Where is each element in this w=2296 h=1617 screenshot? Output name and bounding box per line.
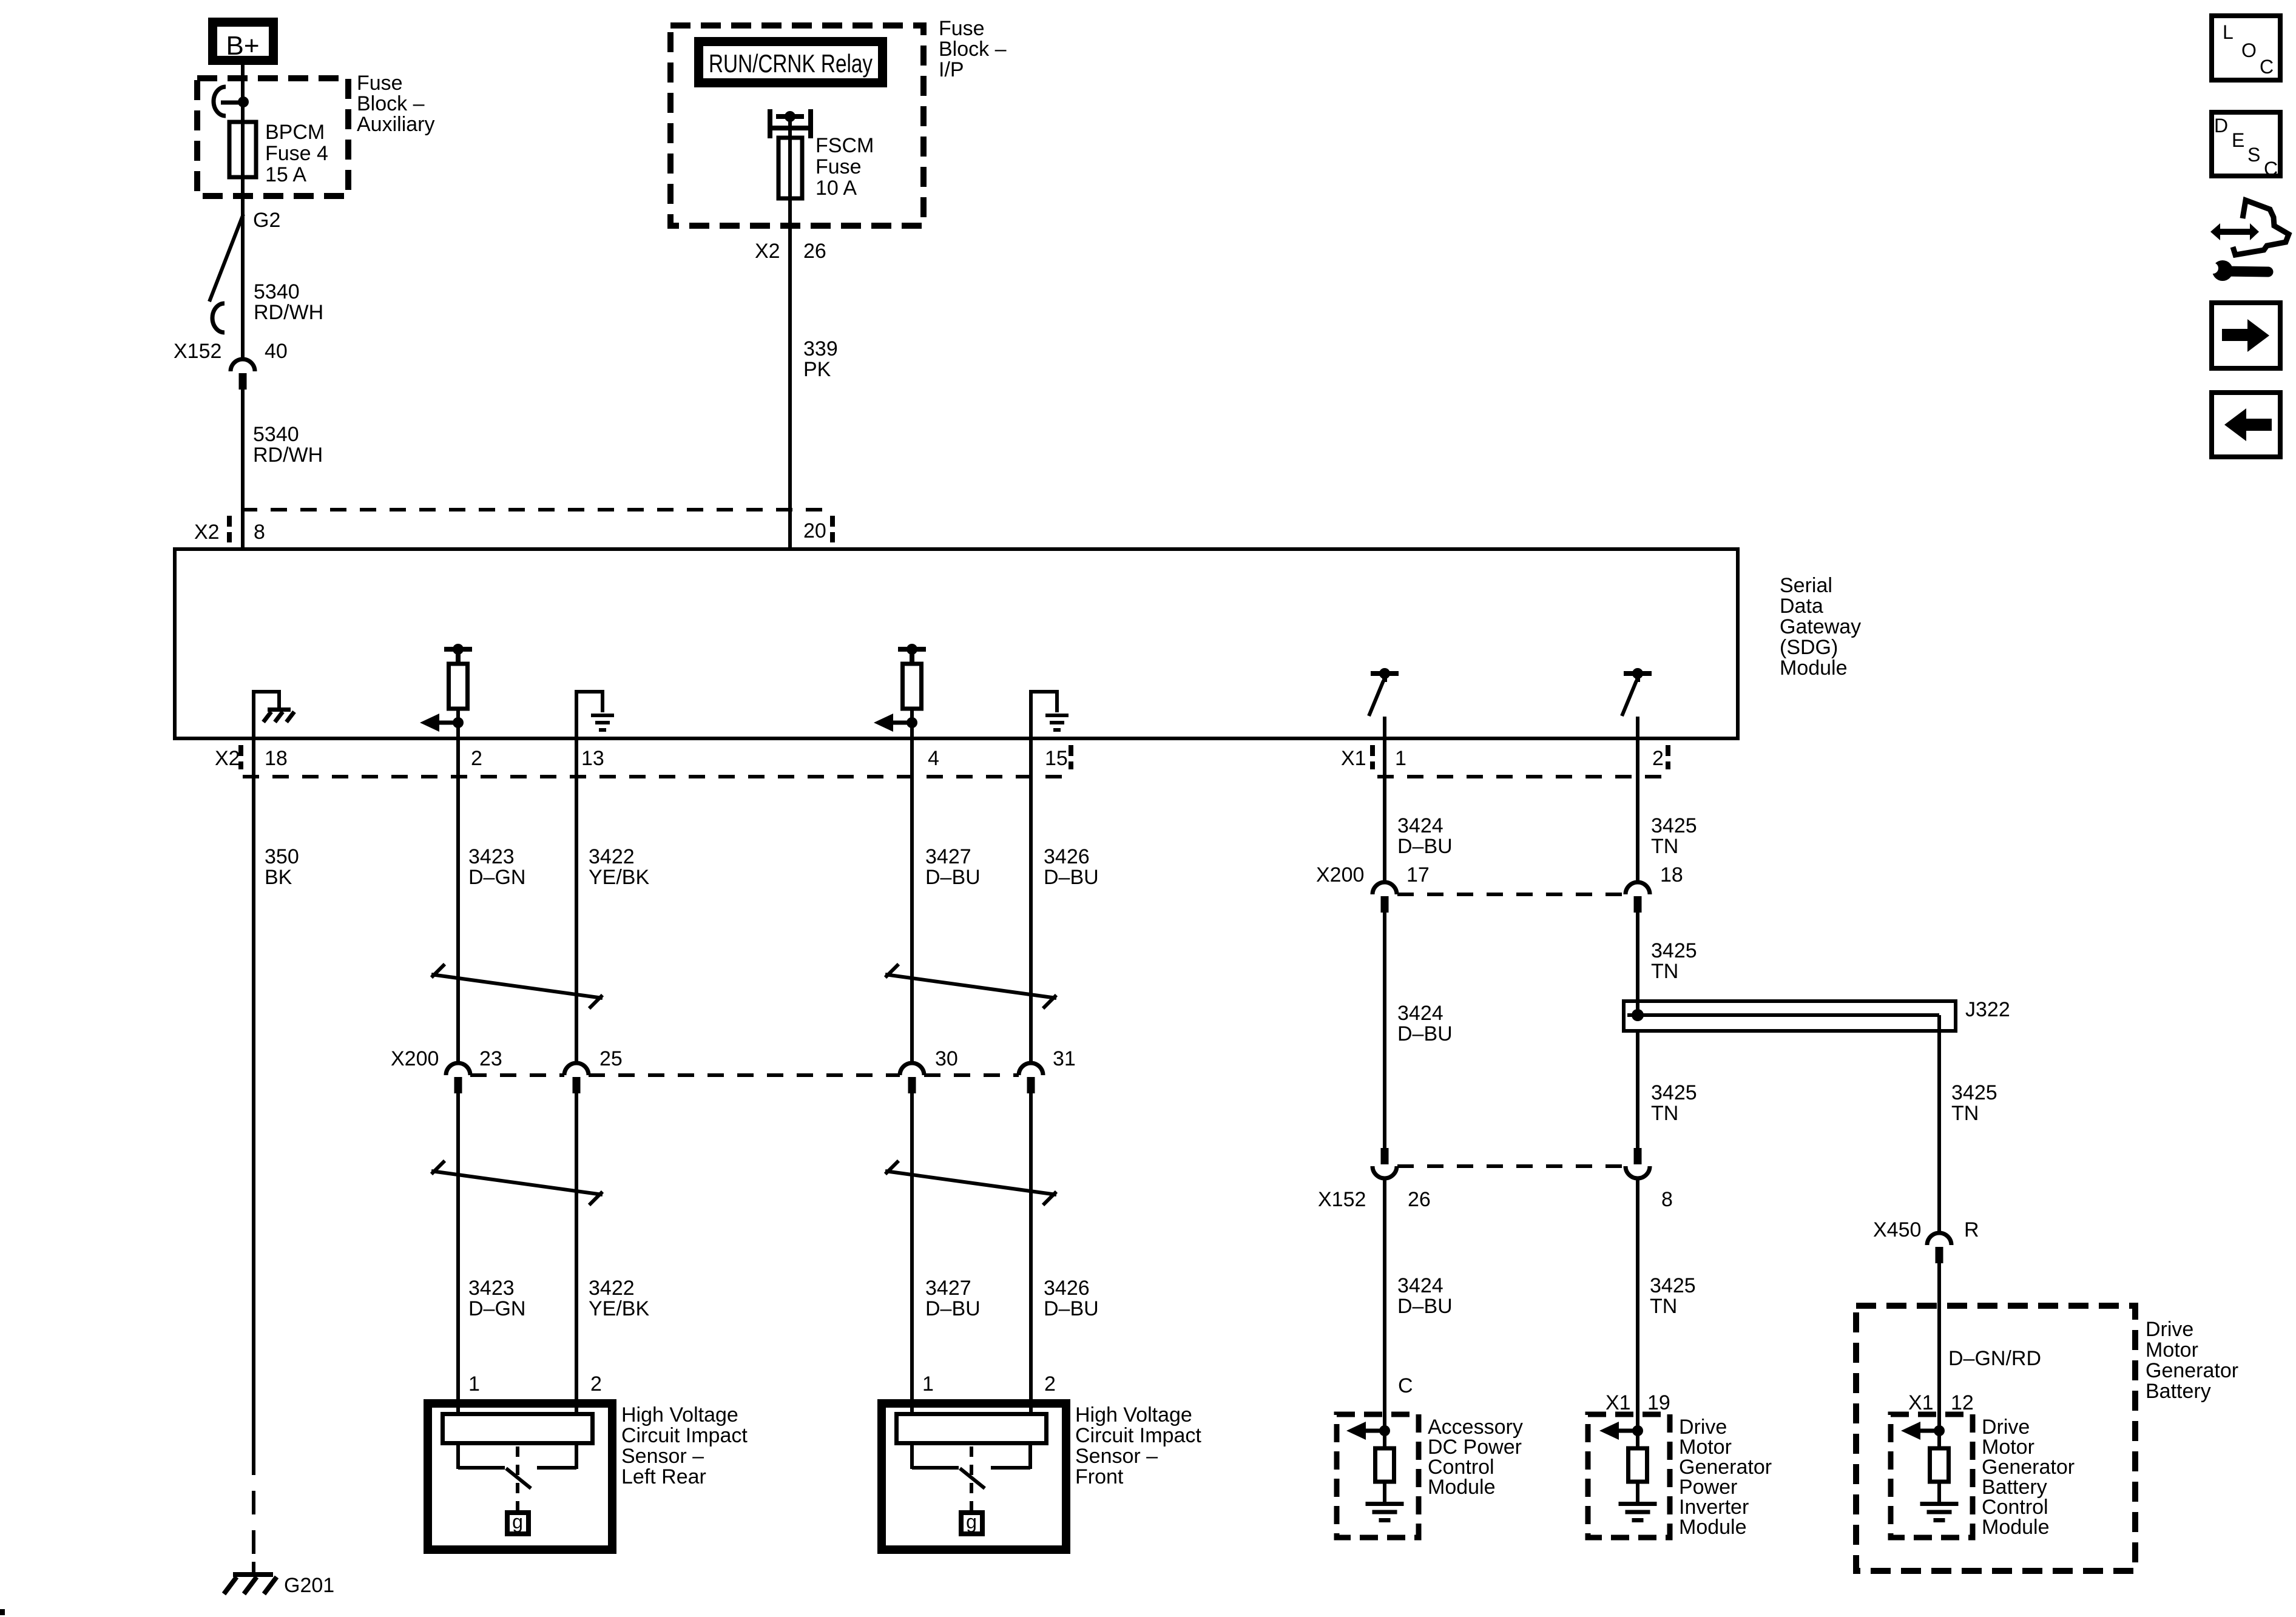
svg-text:5340: 5340 (253, 423, 299, 446)
svg-text:X2: X2 (755, 240, 780, 263)
svg-text:3424: 3424 (1397, 1274, 1443, 1297)
svg-text:Generator: Generator (2146, 1359, 2238, 1382)
wire stub to G201 (252, 1562, 255, 1573)
wire 3426 D-BU (X200-31 to sensor) (1029, 1093, 1033, 1414)
svg-text:Fuse 4: Fuse 4 (265, 142, 328, 165)
svg-text:L: L (2223, 21, 2234, 43)
svg-text:3425: 3425 (1951, 1081, 1997, 1104)
tap wire to other G2 loads (209, 214, 243, 302)
svg-text:3426: 3426 (1044, 1277, 1090, 1300)
wire 3425 TN (X200-18 to splice J322) (1636, 913, 1639, 1015)
ground G201 chassis symbol (233, 1572, 273, 1577)
svg-text:G201: G201 (284, 1574, 334, 1597)
svg-text:3425: 3425 (1651, 939, 1697, 962)
twisted pair symbol (3427/3426 lower) (885, 1161, 899, 1174)
svg-text:D–BU: D–BU (1044, 1297, 1099, 1320)
connector X200 pin 23 (446, 1063, 470, 1075)
icon: forward arrow box (2212, 303, 2280, 368)
svg-text:PK: PK (803, 358, 831, 381)
svg-text:g: g (512, 1511, 523, 1533)
svg-text:3425: 3425 (1651, 814, 1697, 837)
svg-text:Module: Module (1982, 1516, 2050, 1539)
wire: X152-40 down to SDG pin X2-8 (241, 390, 245, 549)
connector row X200 (right) (1397, 893, 1626, 896)
svg-text:3423: 3423 (468, 1277, 515, 1300)
svg-text:30: 30 (935, 1047, 958, 1070)
svg-text:2: 2 (590, 1372, 602, 1396)
svg-text:15 A: 15 A (265, 163, 306, 186)
svg-text:8: 8 (254, 521, 265, 544)
svg-text:X1: X1 (1341, 747, 1366, 770)
svg-text:Module: Module (1428, 1476, 1496, 1499)
svg-text:1: 1 (922, 1372, 934, 1396)
svg-text:Left Rear: Left Rear (621, 1465, 706, 1488)
svg-text:D: D (2214, 115, 2228, 137)
wire 350 BK (ground from pin X2-18) (252, 738, 255, 1451)
wire 3422 YE/BK (pin X2-13 to X200-25) (575, 738, 578, 1063)
svg-text:Module: Module (1780, 657, 1848, 680)
connector row X200 (sensors) (470, 1073, 564, 1077)
wire 3424 D-BU (X152-26 to module) (1383, 1178, 1386, 1431)
svg-text:G2: G2 (253, 209, 280, 232)
icon: connector repair (double arrow, shell, wrench) (2210, 223, 2220, 240)
connector X200 pin 31 (1019, 1063, 1043, 1075)
svg-text:(SDG): (SDG) (1780, 636, 1838, 659)
svg-text:X152: X152 (174, 340, 221, 363)
svg-text:J322: J322 (1965, 998, 2010, 1021)
svg-text:High Voltage: High Voltage (621, 1403, 738, 1426)
svg-text:D–GN: D–GN (468, 1297, 525, 1320)
svg-text:3425: 3425 (1651, 1081, 1697, 1104)
svg-text:Fuse: Fuse (939, 17, 985, 40)
sensor: High Voltage Circuit Impact Sensor - Left Rear (428, 1403, 612, 1550)
connector X152 pin 40 pass-through (231, 359, 255, 371)
svg-text:Auxiliary: Auxiliary (357, 113, 434, 136)
svg-text:339: 339 (803, 337, 838, 360)
wire 3427 D-BU (pin X2-4 to X200-30) (910, 723, 914, 1063)
svg-text:Data: Data (1780, 595, 1823, 618)
wire: switch to pin X1-2 (1636, 717, 1639, 738)
svg-text:2: 2 (1652, 747, 1664, 770)
internal switch at pin X1-2 (1624, 671, 1652, 676)
wire 3425 TN (J322 to X1-8) (1636, 1031, 1639, 1148)
svg-text:18: 18 (1660, 863, 1683, 886)
page artifact dot (0, 1609, 5, 1615)
svg-text:Circuit Impact: Circuit Impact (1075, 1424, 1201, 1447)
twisted pair symbol (3423/3422 lower) (431, 1161, 445, 1174)
svg-text:18: 18 (265, 747, 288, 770)
wire 3425 TN (J322 to X450-R) (1937, 1015, 1941, 1233)
wire 3426 D-BU (pin X2-15 to X200-31) (1029, 738, 1033, 1063)
svg-text:X1: X1 (1908, 1391, 1934, 1414)
svg-text:Battery: Battery (2146, 1380, 2211, 1403)
connector X152 pin 26 (1381, 1148, 1389, 1164)
internal earth ground at pin X2-13 (575, 692, 578, 738)
icon: LOC box (2212, 16, 2280, 80)
sensor internal switch to ground (left rear) (516, 1447, 519, 1510)
twisted pair symbol (3423/3422 upper) (431, 964, 445, 977)
svg-text:Gateway: Gateway (1780, 615, 1861, 638)
svg-text:26: 26 (1408, 1188, 1431, 1211)
wire 3423 D-GN (pin X2-2 to X200-23) (456, 723, 460, 1063)
twisted pair symbol (3427/3426 upper) (885, 964, 899, 977)
battery feed terminal B+ box (213, 22, 274, 61)
svg-text:3424: 3424 (1397, 1002, 1443, 1025)
svg-text:D–BU: D–BU (925, 1297, 981, 1320)
svg-text:8: 8 (1661, 1188, 1673, 1211)
internal earth ground at pin X2-15 (1029, 692, 1033, 738)
wire 3422 YE/BK (X200-25 to sensor) (575, 1093, 578, 1414)
svg-text:TN: TN (1650, 1295, 1677, 1318)
connector row X2 (top of SDG) (241, 508, 832, 511)
svg-text:25: 25 (599, 1047, 623, 1070)
svg-text:26: 26 (803, 240, 826, 263)
svg-text:RD/WH: RD/WH (253, 444, 323, 467)
svg-text:17: 17 (1406, 863, 1430, 886)
svg-text:Block –: Block – (357, 92, 425, 115)
svg-text:X2: X2 (194, 521, 220, 544)
svg-text:Fuse: Fuse (357, 72, 403, 95)
svg-text:TN: TN (1651, 835, 1678, 858)
fuse block auxiliary dashed box (197, 78, 348, 196)
svg-text:1: 1 (1395, 747, 1406, 770)
module: Serial Data Gateway (SDG) (175, 549, 1738, 738)
svg-text:3427: 3427 (925, 845, 971, 868)
svg-text:X2: X2 (215, 747, 240, 770)
fuse block I/P dashed box (670, 25, 923, 226)
svg-text:D–BU: D–BU (1397, 835, 1453, 858)
svg-text:YE/BK: YE/BK (589, 1297, 649, 1320)
wire: through BPCM fuse to X152-40 (241, 102, 245, 359)
internal chassis ground at pin X2-18 (252, 692, 255, 738)
connector row X152 (right) (1397, 1164, 1626, 1168)
svg-text:X152: X152 (1318, 1188, 1366, 1211)
svg-text:TN: TN (1951, 1102, 1979, 1125)
svg-text:D–BU: D–BU (925, 866, 981, 889)
component: Drive Motor Generator Battery dashed box (1856, 1306, 2135, 1571)
svg-text:3426: 3426 (1044, 845, 1090, 868)
internal switch at pin X1-1 (1371, 671, 1399, 676)
svg-text:E: E (2232, 129, 2244, 151)
svg-text:3422: 3422 (589, 1277, 635, 1300)
svg-text:19: 19 (1647, 1391, 1670, 1414)
svg-text:D–GN: D–GN (468, 866, 525, 889)
svg-text:3424: 3424 (1397, 814, 1443, 837)
relay RUN/CRNK Relay box (699, 42, 883, 83)
svg-text:Block –: Block – (939, 38, 1007, 61)
connector X200 pin 17 (1373, 882, 1397, 894)
svg-text:YE/BK: YE/BK (589, 866, 649, 889)
junction at FSCM fuse feed (785, 111, 795, 122)
svg-text:350: 350 (265, 845, 299, 868)
svg-text:R: R (1964, 1218, 1979, 1241)
svg-text:B+: B+ (226, 31, 259, 61)
fuse BPCM Fuse 4 15A (229, 122, 256, 177)
svg-text:Module: Module (1679, 1516, 1747, 1539)
icon: back arrow box (2212, 393, 2280, 457)
internal pull-up resistor + signal arrow at pin X2-2 (444, 647, 472, 652)
svg-text:X200: X200 (391, 1047, 439, 1070)
svg-text:2: 2 (1044, 1372, 1056, 1396)
junction: 3425 TN at J322 (1632, 1009, 1644, 1021)
svg-text:2: 2 (471, 747, 482, 770)
svg-text:4: 4 (928, 747, 939, 770)
svg-text:C: C (1398, 1374, 1413, 1397)
fuse FSCM Fuse 10A (778, 138, 802, 198)
svg-text:X450: X450 (1873, 1218, 1921, 1241)
internal pull-up resistor + signal arrow at pin X2-4 (898, 647, 926, 652)
svg-text:12: 12 (1951, 1391, 1974, 1414)
svg-text:BK: BK (265, 866, 292, 889)
wire D-GN/RD (X450-R to battery control module) (1937, 1263, 1941, 1431)
svg-text:D–GN/RD: D–GN/RD (1948, 1347, 2041, 1370)
svg-text:TN: TN (1651, 960, 1678, 983)
connector X200 pin 25 (564, 1063, 589, 1075)
wire 3427 D-BU (X200-30 to sensor) (910, 1093, 914, 1414)
sensor internal switch to ground (front) (970, 1447, 973, 1510)
svg-text:3422: 3422 (589, 845, 635, 868)
connector X1 pin 8 pass-through (1634, 1148, 1642, 1164)
svg-text:Sensor –: Sensor – (621, 1445, 704, 1468)
svg-text:S: S (2247, 144, 2260, 166)
wire: B+ into Fuse Block - Auxiliary (241, 65, 245, 102)
svg-text:Circuit Impact: Circuit Impact (621, 1424, 748, 1447)
wire 3423 D-GN (X200-23 to sensor) (456, 1093, 460, 1414)
icon: DESC box (2212, 112, 2280, 176)
svg-text:D–BU: D–BU (1397, 1022, 1453, 1045)
svg-text:High Voltage: High Voltage (1075, 1403, 1192, 1426)
splice pack J322 (1624, 1001, 1956, 1031)
wire 3425 TN (X1-8 to inverter module) (1636, 1178, 1639, 1431)
module: Accessory DC Power Control Module (1337, 1414, 1419, 1538)
svg-text:Serial: Serial (1780, 574, 1832, 597)
connector X450 pin R (1927, 1233, 1951, 1245)
svg-text:O: O (2241, 39, 2257, 61)
connector row X1 (bottom of SDG) (1377, 775, 1672, 778)
svg-text:Sensor –: Sensor – (1075, 1445, 1158, 1468)
svg-text:1: 1 (468, 1372, 480, 1396)
svg-text:BPCM: BPCM (265, 121, 325, 144)
junction at BPCM fuse feed (238, 96, 249, 107)
svg-text:RD/WH: RD/WH (254, 301, 323, 324)
svg-text:13: 13 (581, 747, 604, 770)
bus tap hook (fuse block aux feed) (214, 87, 226, 116)
svg-text:C: C (2260, 56, 2274, 78)
svg-text:Front: Front (1075, 1465, 1124, 1488)
wire 350 BK dashed to G201 (252, 1451, 255, 1571)
svg-text:40: 40 (265, 340, 288, 363)
svg-text:g: g (966, 1511, 977, 1533)
svg-text:31: 31 (1053, 1047, 1076, 1070)
svg-text:X200: X200 (1316, 863, 1364, 886)
module: Drive Motor Generator Power Inverter Module (1588, 1414, 1670, 1538)
wire 3425 TN (pin X1-2 to X200-18) (1636, 717, 1639, 882)
svg-text:10 A: 10 A (815, 177, 857, 200)
svg-text:D–BU: D–BU (1397, 1295, 1453, 1318)
relay contact output cup symbol (768, 109, 772, 138)
wire 3424 D-BU (X200-17 to X152-26) (1383, 913, 1386, 1148)
svg-text:3425: 3425 (1650, 1274, 1696, 1297)
connector row X2 (bottom of SDG) (243, 775, 1068, 778)
svg-text:X1: X1 (1606, 1391, 1631, 1414)
svg-text:FSCM: FSCM (815, 134, 874, 157)
wire 3424 D-BU (pin X1-1 to X200-17) (1383, 717, 1386, 882)
svg-text:5340: 5340 (254, 280, 300, 303)
svg-text:RUN/CRNK Relay: RUN/CRNK Relay (709, 49, 873, 78)
svg-text:3423: 3423 (468, 845, 515, 868)
svg-text:TN: TN (1651, 1102, 1678, 1125)
svg-text:23: 23 (479, 1047, 502, 1070)
wire: switch to pin X1-1 (1383, 717, 1386, 738)
svg-text:C: C (2264, 158, 2278, 180)
connector X200 pin 30 (900, 1063, 924, 1075)
wire: through FSCM fuse down to SDG pin X2-20 (788, 116, 792, 549)
sensor: High Voltage Circuit Impact Sensor - Front (882, 1403, 1066, 1550)
svg-text:3427: 3427 (925, 1277, 971, 1300)
svg-text:15: 15 (1045, 747, 1068, 770)
svg-text:20: 20 (803, 519, 826, 542)
svg-text:Motor: Motor (2146, 1338, 2198, 1362)
svg-text:Fuse: Fuse (815, 155, 862, 178)
svg-text:D–BU: D–BU (1044, 866, 1099, 889)
svg-text:I/P: I/P (939, 58, 964, 81)
module: Drive Motor Generator Battery Control Module (1891, 1414, 1973, 1538)
connector X200 pin 18 (1626, 882, 1650, 894)
svg-text:Drive: Drive (2146, 1318, 2193, 1341)
